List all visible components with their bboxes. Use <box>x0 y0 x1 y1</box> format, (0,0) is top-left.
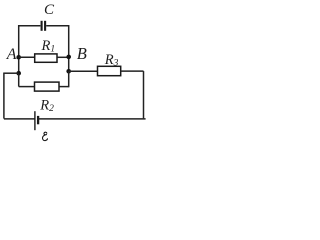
battery short plate <box>37 116 39 124</box>
resistor R3 box <box>98 66 121 75</box>
wire bottom right (battery to right rail) <box>39 118 146 120</box>
wire junction A down to R2 row <box>18 73 20 86</box>
wire R2 to riser <box>59 86 69 88</box>
node A junction dot <box>16 55 21 60</box>
wire riser up to junction below B <box>68 71 70 87</box>
wire junction B to R3 <box>69 70 98 72</box>
svg-text:C: C <box>44 2 55 18</box>
wire left vertical (top corner down through node A to junction) <box>18 25 20 73</box>
wire to R2 <box>19 86 35 88</box>
wire R1 to B <box>57 56 69 58</box>
wire junction A to left rail <box>4 72 19 74</box>
wire left rail vertical down to battery row <box>3 73 5 119</box>
resistor R1 box <box>35 54 57 62</box>
svg-text:R3: R3 <box>104 52 119 69</box>
svg-text:A: A <box>6 46 17 63</box>
wire top (capacitor branch, right half) <box>46 25 68 27</box>
wire bottom left (left rail to battery) <box>4 118 35 120</box>
junction dot below B <box>66 69 71 74</box>
resistor R2 box <box>35 82 60 91</box>
battery long plate <box>34 111 36 130</box>
wire right vertical (top corner down through node B to junction) <box>68 25 70 71</box>
svg-text:R2: R2 <box>39 97 54 114</box>
wire top (capacitor branch, left half) <box>19 25 41 27</box>
wire A to R1 <box>19 56 35 58</box>
battery emf label (script E) <box>42 132 47 140</box>
wire R3 to right rail <box>121 70 144 72</box>
capacitor C plates <box>42 21 46 31</box>
junction dot below A <box>16 71 21 76</box>
svg-text:B: B <box>77 44 87 63</box>
wire right rail vertical down <box>143 71 145 118</box>
node B junction dot <box>66 55 71 60</box>
svg-text:R1: R1 <box>41 38 56 55</box>
